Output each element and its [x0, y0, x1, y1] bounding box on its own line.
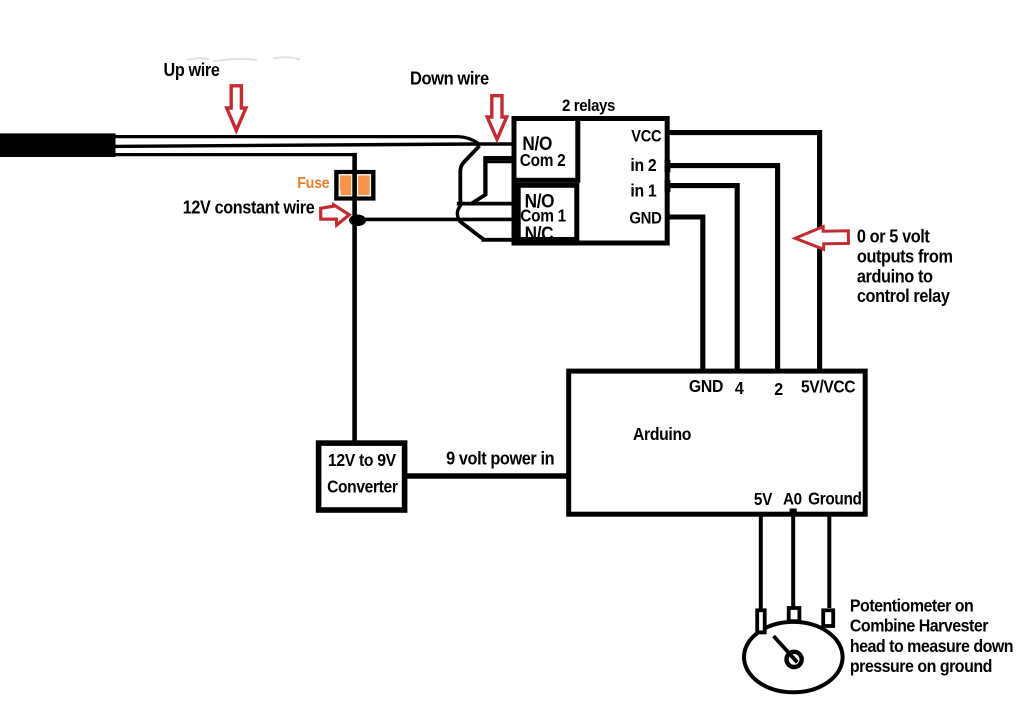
svg-text:Ground: Ground: [808, 490, 861, 509]
svg-text:control relay: control relay: [857, 285, 950, 306]
svg-text:9 volt power in: 9 volt power in: [446, 447, 554, 468]
svg-text:Down wire: Down wire: [410, 68, 489, 89]
svg-text:A0: A0: [783, 490, 802, 509]
svg-text:Potentiometer on: Potentiometer on: [850, 596, 974, 616]
svg-text:in 1: in 1: [630, 181, 656, 201]
svg-text:pressure on ground: pressure on ground: [850, 656, 992, 676]
svg-text:4: 4: [735, 378, 744, 398]
svg-text:5V/VCC: 5V/VCC: [801, 377, 856, 397]
svg-text:Com 2: Com 2: [520, 151, 566, 170]
svg-text:5V: 5V: [754, 490, 773, 509]
svg-text:head to measure down: head to measure down: [850, 636, 1013, 656]
svg-text:GND: GND: [629, 210, 661, 228]
svg-text:2 relays: 2 relays: [562, 97, 616, 115]
svg-text:2: 2: [774, 379, 783, 399]
svg-text:Fuse: Fuse: [297, 174, 329, 192]
svg-text:arduino to: arduino to: [857, 266, 933, 287]
svg-text:Combine Harvester: Combine Harvester: [850, 616, 989, 636]
svg-text:in 2: in 2: [630, 155, 656, 175]
svg-text:N/C: N/C: [525, 222, 554, 244]
svg-text:VCC: VCC: [631, 128, 661, 146]
svg-text:0 or 5 volt: 0 or 5 volt: [857, 225, 930, 246]
svg-text:12V constant wire: 12V constant wire: [183, 197, 315, 218]
svg-text:Up wire: Up wire: [164, 59, 220, 80]
svg-text:Converter: Converter: [327, 477, 398, 497]
svg-text:GND: GND: [689, 376, 723, 396]
svg-text:outputs from: outputs from: [857, 246, 953, 267]
svg-text:Arduino: Arduino: [633, 424, 691, 444]
svg-text:12V to 9V: 12V to 9V: [328, 450, 397, 470]
